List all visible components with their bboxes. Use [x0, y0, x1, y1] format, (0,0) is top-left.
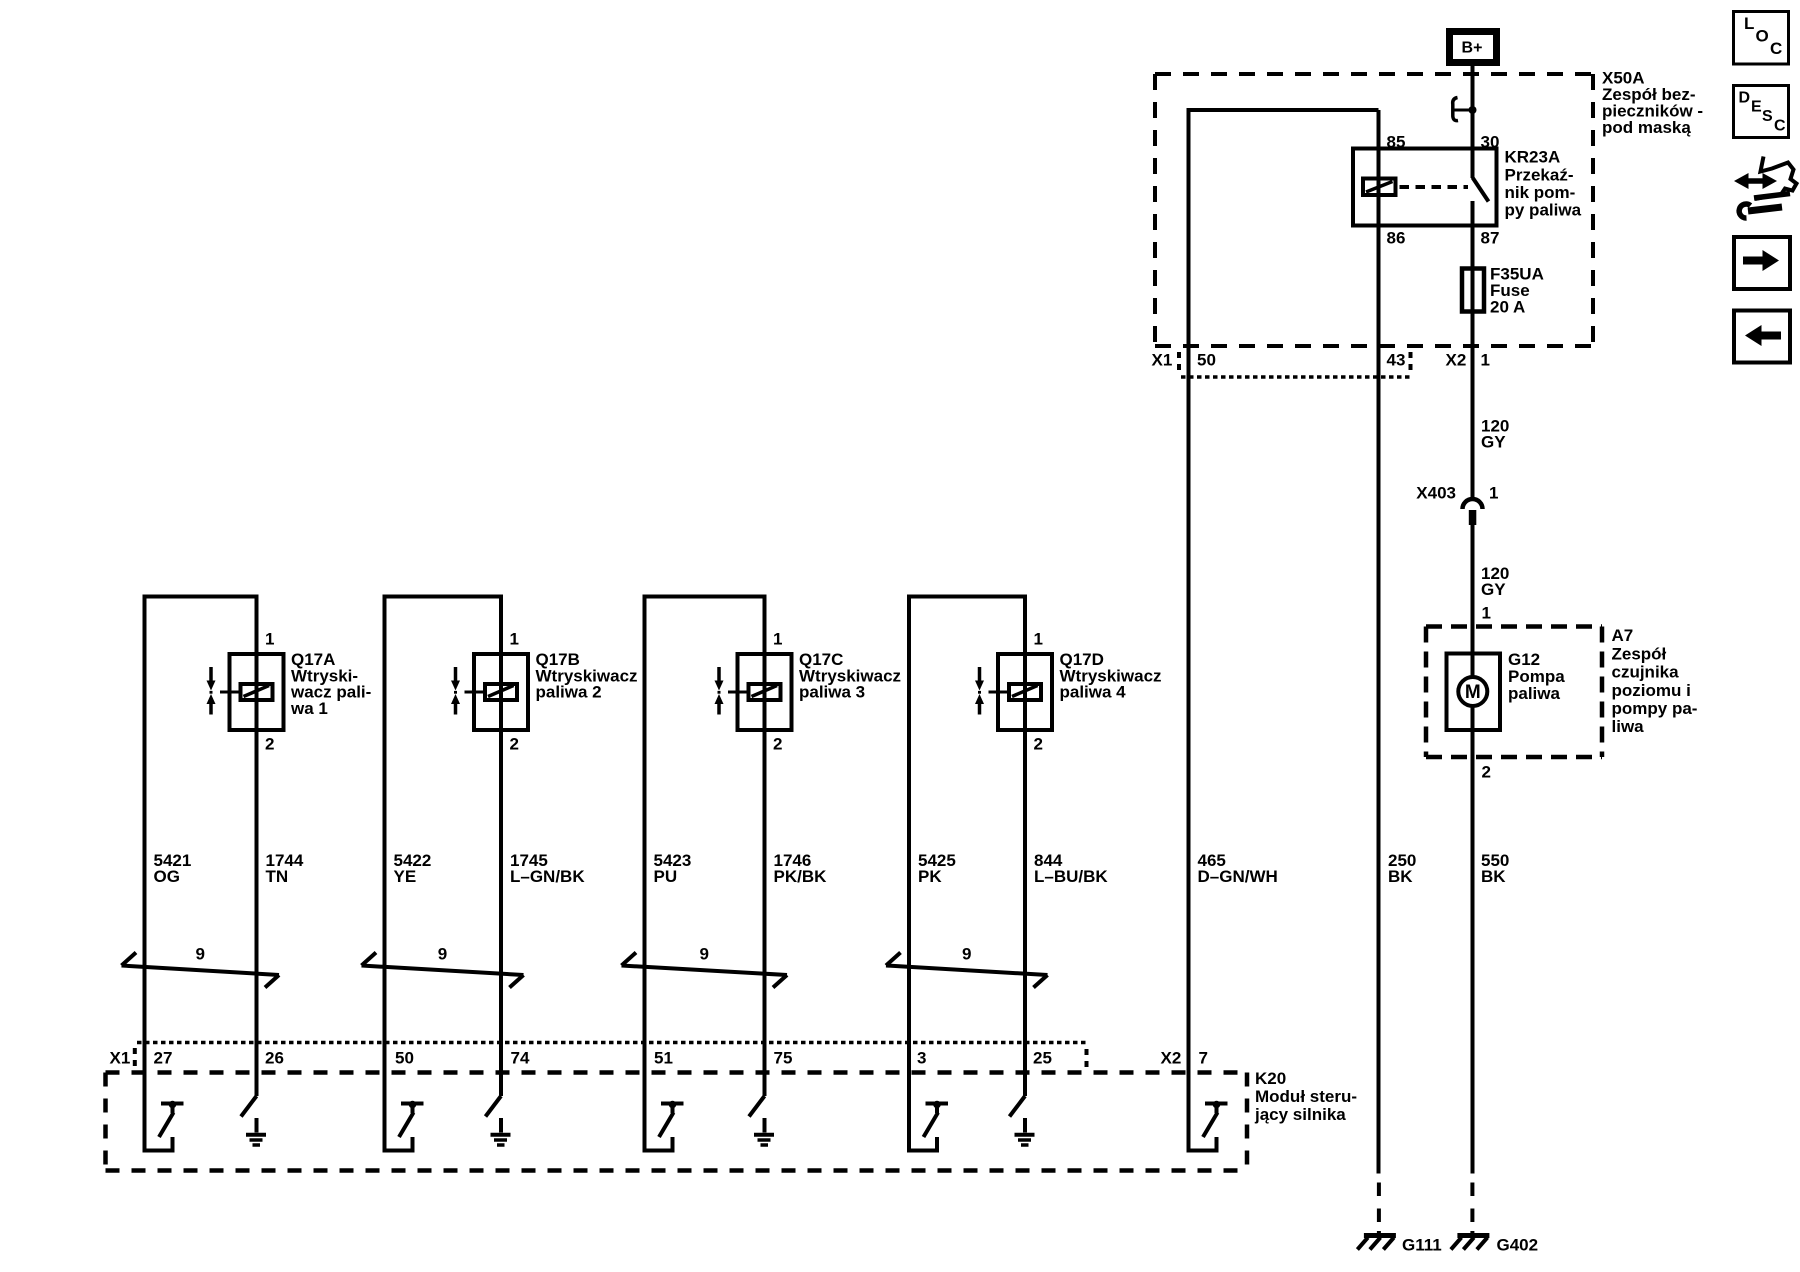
label K20 Modul sterujacy silnika: [1254, 1069, 1357, 1124]
wire label 465 D-GN/WH: [1198, 851, 1278, 886]
svg-text:75: 75: [774, 1049, 793, 1068]
label Q17C: [799, 650, 901, 701]
ECM K20 dashed box: [106, 1073, 1248, 1171]
svg-text:D: D: [1739, 90, 1751, 107]
wire feed Q17D (5425 PK): [907, 597, 911, 1151]
svg-text:26: 26: [265, 1049, 284, 1068]
icon DESC box: [1734, 86, 1789, 138]
wire feed Q17B (5422 YE): [383, 597, 387, 1151]
ground G111: [1357, 1183, 1441, 1255]
fuel pump module A7 dashed box: [1426, 627, 1602, 758]
svg-text:3: 3: [917, 1049, 926, 1068]
svg-text:liwa: liwa: [1612, 717, 1645, 736]
ground G402: [1451, 1183, 1538, 1255]
svg-text:50: 50: [1197, 351, 1216, 370]
svg-text:BK: BK: [1481, 867, 1506, 886]
wire B+ to relay pin 30: [1471, 66, 1475, 178]
svg-text:GY: GY: [1481, 433, 1506, 452]
svg-text:1: 1: [1034, 630, 1043, 649]
svg-text:Przekaź-: Przekaź-: [1505, 165, 1574, 184]
svg-text:2: 2: [773, 735, 782, 754]
svg-text:jący silnika: jący silnika: [1254, 1105, 1346, 1124]
wire return Q17D (844): [1023, 597, 1027, 1097]
svg-text:51: 51: [654, 1049, 673, 1068]
svg-text:30: 30: [1481, 133, 1500, 152]
wire label 1745: [510, 851, 585, 886]
relay switch arm: [1473, 178, 1489, 202]
svg-text:G111: G111: [1402, 1236, 1442, 1255]
svg-text:paliwa 2: paliwa 2: [536, 683, 602, 702]
wire return Q17B (1745): [499, 597, 503, 1097]
low-side driver output (pin 27): [145, 1101, 184, 1151]
label F35UA Fuse 20 A: [1490, 265, 1544, 317]
svg-text:Moduł steru-: Moduł steru-: [1255, 1087, 1357, 1106]
svg-text:C: C: [1770, 39, 1782, 58]
svg-text:2: 2: [1482, 763, 1491, 782]
wire loop top Q17B: [383, 595, 504, 599]
svg-text:74: 74: [511, 1049, 530, 1068]
motor symbol M: [1458, 677, 1487, 706]
wire return Q17A (1744): [255, 597, 259, 1097]
wire loop top Q17C: [643, 595, 767, 599]
wire loop top Q17A: [143, 595, 259, 599]
svg-text:YE: YE: [394, 867, 417, 886]
svg-text:wa 1: wa 1: [290, 699, 328, 718]
wire X403 to fuel pump and ground G402 (550 BK): [1471, 525, 1475, 1174]
svg-text:L–GN/BK: L–GN/BK: [510, 867, 585, 886]
svg-text:1: 1: [1489, 484, 1498, 503]
svg-text:pompy pa-: pompy pa-: [1612, 699, 1698, 718]
svg-text:C: C: [1774, 118, 1786, 135]
wire label 5421 OG: [154, 851, 192, 886]
wire label 5425 PK: [918, 851, 956, 886]
svg-text:1: 1: [510, 630, 519, 649]
svg-text:9: 9: [700, 945, 709, 964]
svg-text:K20: K20: [1255, 1069, 1286, 1088]
injector Q17B: [451, 654, 528, 730]
icon diagnostic arrows and wrench: [1734, 157, 1797, 219]
svg-text:PK: PK: [918, 867, 942, 886]
label A7 Zespol czujnika poziomu i pompy paliwa: [1612, 626, 1698, 736]
svg-text:X403: X403: [1416, 484, 1456, 503]
ECM connector row X1 dotted line: [137, 1041, 1086, 1045]
svg-text:paliwa: paliwa: [1508, 684, 1561, 703]
fuse F35UA: [1462, 269, 1484, 312]
internal ground switch (pin 75): [749, 1096, 774, 1145]
connector stub right of pin 25: [1085, 1049, 1089, 1068]
svg-text:1: 1: [1481, 351, 1490, 370]
wire relay 87 through fuse to X2-1: [1471, 201, 1475, 499]
fuel pump G12 box: [1447, 654, 1501, 731]
svg-text:nik pom-: nik pom-: [1505, 183, 1576, 202]
svg-text:86: 86: [1387, 229, 1406, 248]
connector row X50A X1: [1179, 352, 1411, 377]
low-side driver output (pin 51): [645, 1101, 684, 1151]
wire feed Q17A (5421 OG): [143, 597, 147, 1151]
svg-text:BK: BK: [1388, 867, 1413, 886]
harness crossing 9 (Q17A pair): [122, 945, 280, 988]
svg-text:PK/BK: PK/BK: [774, 867, 828, 886]
label Q17B: [536, 650, 638, 701]
wire label 844: [1034, 851, 1108, 886]
svg-text:X1: X1: [1152, 351, 1173, 370]
svg-text:GY: GY: [1481, 580, 1506, 599]
svg-text:PU: PU: [654, 867, 678, 886]
svg-text:O: O: [1756, 27, 1769, 46]
svg-text:paliwa 4: paliwa 4: [1060, 683, 1127, 702]
label G12 Pompa paliwa: [1508, 650, 1565, 703]
svg-text:L–BU/BK: L–BU/BK: [1034, 867, 1108, 886]
svg-text:9: 9: [196, 945, 205, 964]
svg-text:OG: OG: [154, 867, 180, 886]
svg-text:X2: X2: [1161, 1049, 1182, 1068]
relay actuation dashed line: [1400, 185, 1469, 189]
svg-text:A7: A7: [1612, 626, 1634, 645]
svg-text:M: M: [1465, 682, 1481, 703]
label KR23A Przekaznik pompy paliwa: [1505, 148, 1582, 220]
low-side driver output (pin 7): [1189, 1101, 1228, 1151]
injector Q17A: [207, 654, 284, 730]
svg-text:20 A: 20 A: [1490, 298, 1525, 317]
label X50A Zespol bezpiecznikow pod maska: [1602, 69, 1703, 138]
svg-text:py paliwa: py paliwa: [1505, 201, 1582, 220]
low-side driver output (pin 50): [385, 1101, 424, 1151]
injector Q17D: [975, 654, 1052, 730]
splice tap symbol on B+ feed: [1453, 98, 1477, 121]
label Q17A: [290, 650, 371, 718]
svg-text:paliwa 3: paliwa 3: [799, 683, 865, 702]
svg-text:G402: G402: [1497, 1236, 1539, 1255]
internal ground switch (pin 25): [1010, 1096, 1035, 1145]
svg-text:87: 87: [1481, 229, 1500, 248]
svg-text:43: 43: [1387, 351, 1406, 370]
svg-text:KR23A: KR23A: [1505, 148, 1561, 167]
wire label 120 GY upper: [1481, 417, 1509, 452]
harness crossing 9 (Q17D pair): [886, 945, 1048, 988]
connector X403 terminal 1: [1463, 499, 1483, 525]
svg-text:E: E: [1751, 99, 1762, 116]
wire label 120 GY lower: [1481, 564, 1509, 599]
injector Q17C: [715, 654, 792, 730]
svg-text:1: 1: [265, 630, 274, 649]
svg-text:1: 1: [773, 630, 782, 649]
internal ground switch (pin 74): [486, 1096, 511, 1145]
wire relay 85 feed to ECM X1-50: [1189, 110, 1379, 1151]
svg-text:2: 2: [1034, 735, 1043, 754]
svg-text:2: 2: [265, 735, 274, 754]
wire label 550 BK: [1481, 851, 1509, 886]
svg-text:X1: X1: [110, 1049, 131, 1068]
relay coil: [1363, 179, 1396, 196]
svg-text:85: 85: [1387, 133, 1406, 152]
svg-text:S: S: [1762, 108, 1773, 125]
icon forward arrow box: [1734, 237, 1790, 289]
svg-text:25: 25: [1033, 1049, 1052, 1068]
svg-text:czujnika: czujnika: [1612, 663, 1680, 682]
svg-text:X2: X2: [1446, 351, 1467, 370]
wire feed Q17C (5423 PU): [643, 597, 647, 1151]
internal ground switch (pin 26): [241, 1096, 266, 1145]
svg-text:9: 9: [438, 945, 447, 964]
label X1 (K20): [110, 1048, 135, 1068]
relay KR23A box: [1353, 149, 1497, 226]
svg-text:9: 9: [962, 945, 971, 964]
icon back arrow box: [1734, 311, 1790, 363]
wire label 250 BK: [1388, 851, 1416, 886]
wire loop top Q17D: [907, 595, 1027, 599]
harness crossing 9 (Q17B pair): [362, 945, 524, 988]
low-side driver output (pin 3): [909, 1101, 948, 1151]
wire return Q17C (1746): [763, 597, 767, 1097]
harness crossing 9 (Q17C pair): [622, 945, 788, 988]
svg-text:pod maską: pod maską: [1602, 118, 1691, 137]
label Q17D: [1060, 650, 1162, 701]
svg-text:Zespół: Zespół: [1612, 644, 1667, 663]
wire label 5422 YE: [394, 851, 432, 886]
svg-text:TN: TN: [266, 867, 289, 886]
svg-text:B+: B+: [1462, 40, 1483, 57]
svg-text:27: 27: [154, 1049, 173, 1068]
svg-text:L: L: [1744, 14, 1754, 33]
svg-text:7: 7: [1199, 1049, 1208, 1068]
fuse block X50A dashed box: [1155, 74, 1593, 346]
icon LOC box: [1734, 12, 1789, 65]
wire relay coil 86 to ground G111 (250 BK): [1377, 110, 1381, 1174]
wire label 1746: [774, 851, 828, 886]
svg-text:50: 50: [395, 1049, 414, 1068]
svg-text:D–GN/WH: D–GN/WH: [1198, 867, 1278, 886]
svg-text:2: 2: [510, 735, 519, 754]
wire label 1744: [266, 851, 304, 886]
wire label 5423 PU: [654, 851, 692, 886]
svg-text:poziomu i: poziomu i: [1612, 681, 1691, 700]
svg-text:1: 1: [1482, 604, 1491, 623]
B+ battery positive voltage symbol: [1446, 28, 1500, 66]
